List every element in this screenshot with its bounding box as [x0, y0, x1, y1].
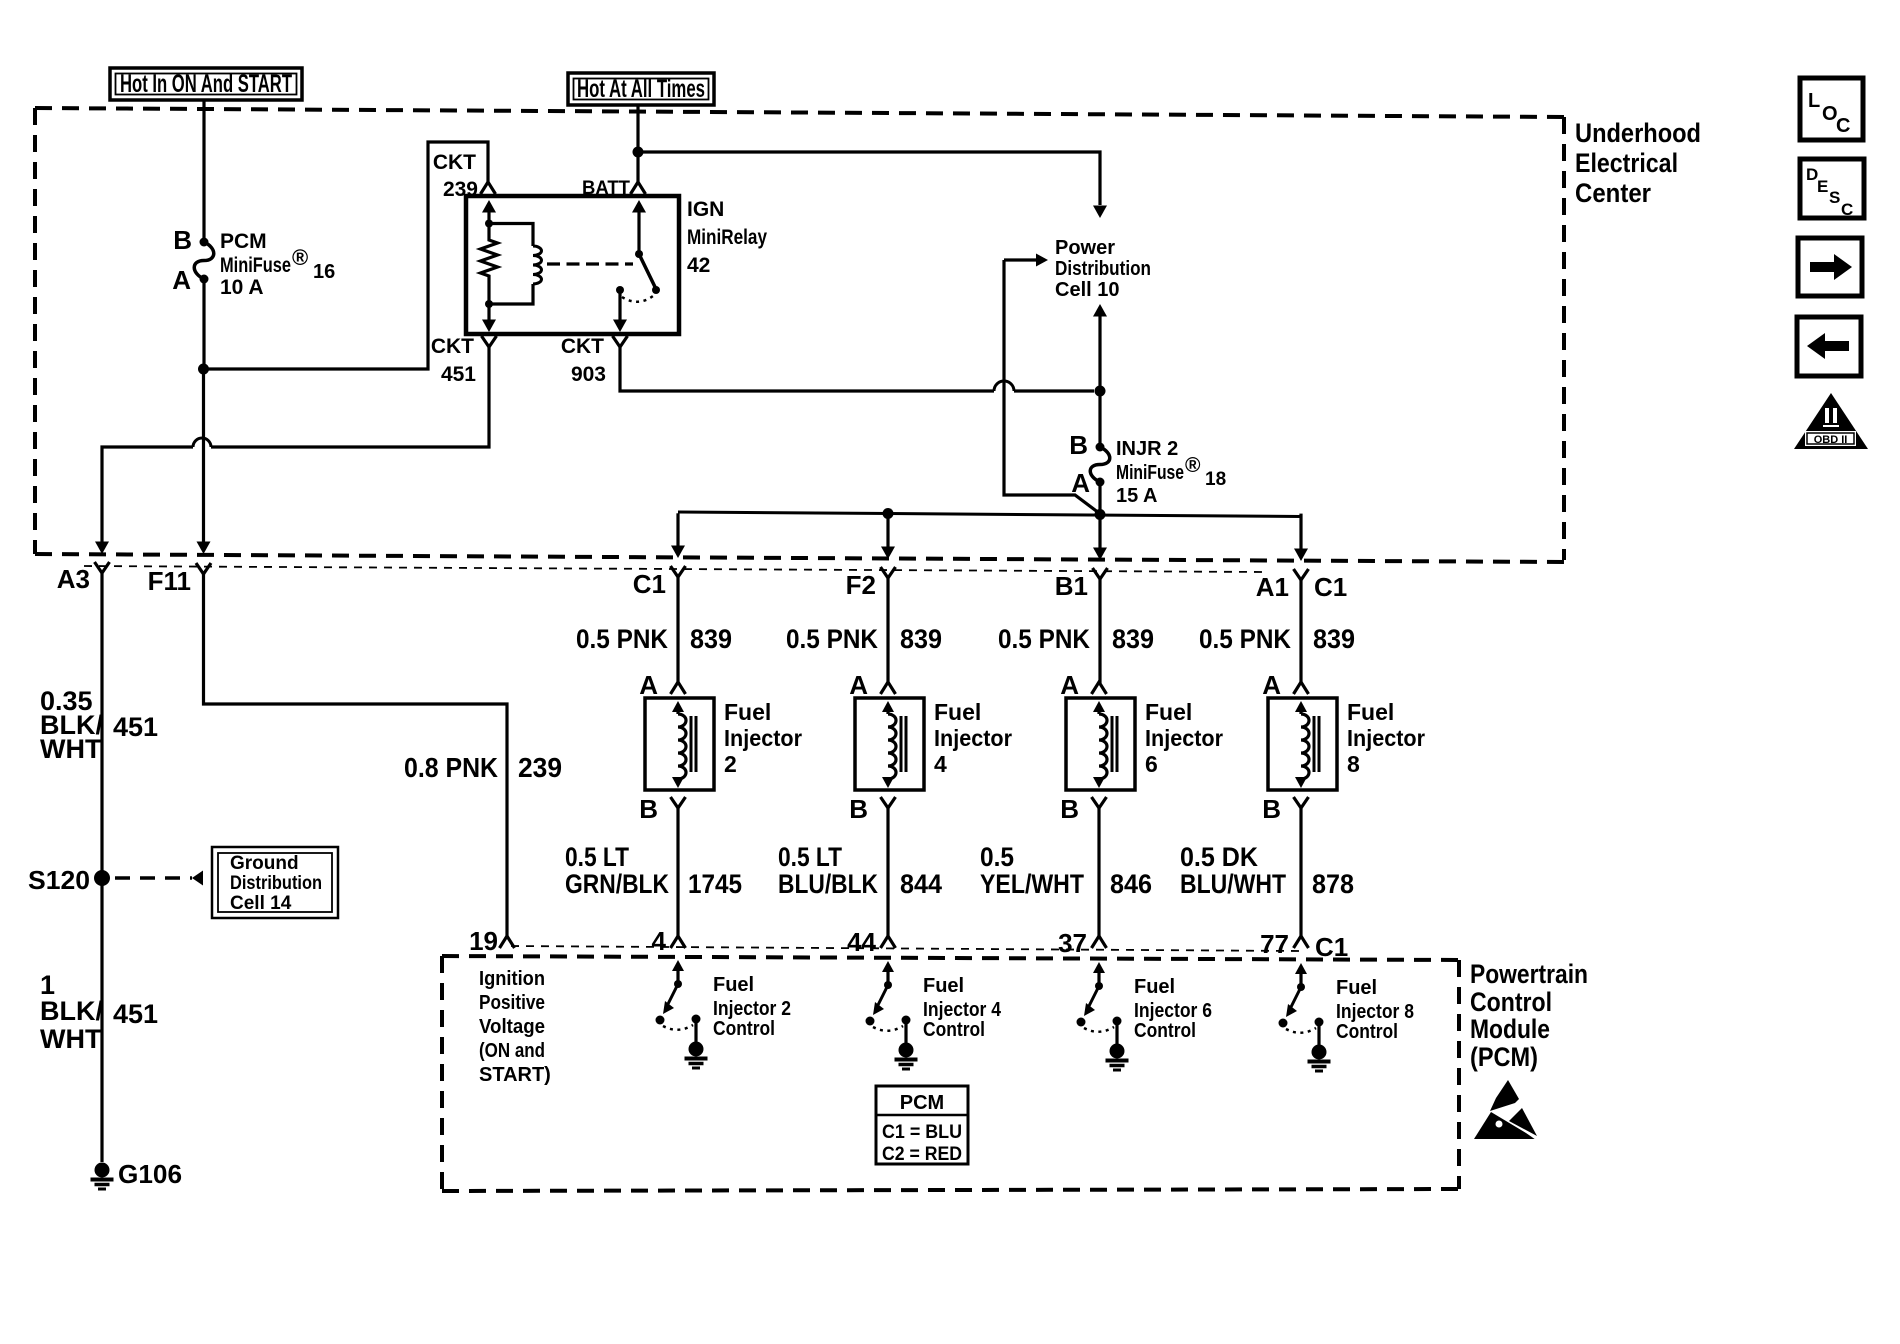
terminal A3 at UEC row — [95, 562, 110, 573]
svg-text:77: 77 — [1260, 929, 1289, 959]
terminal B injector 8 — [1294, 797, 1309, 808]
svg-text:MiniFuse: MiniFuse — [220, 254, 291, 277]
svg-text:Control: Control — [1470, 987, 1552, 1017]
ground symbol injector 8 driver — [1312, 1045, 1327, 1060]
icon back arrow — [1797, 317, 1861, 376]
svg-text:Injector 6: Injector 6 — [1134, 1000, 1212, 1022]
svg-text:WHT: WHT — [40, 734, 102, 764]
svg-text:A: A — [639, 670, 658, 700]
svg-text:B1: B1 — [1055, 571, 1088, 601]
svg-text:OBD II: OBD II — [1814, 434, 1848, 446]
terminal C1 at UEC row — [671, 566, 686, 577]
svg-text:IGN: IGN — [687, 198, 724, 221]
svg-text:YEL/WHT: YEL/WHT — [980, 869, 1084, 899]
svg-text:16: 16 — [313, 261, 335, 283]
relay dashed actuation link — [547, 262, 633, 265]
wire fuse junction down to F11 — [202, 369, 205, 548]
svg-text:Voltage: Voltage — [479, 1016, 545, 1038]
switch arm injector 2 — [668, 984, 678, 1004]
wire A3 to G106 — [100, 573, 103, 1162]
relay switch arm — [639, 254, 656, 289]
svg-text:Fuel: Fuel — [1347, 699, 1394, 725]
svg-text:19: 19 — [469, 926, 498, 956]
svg-text:S: S — [1829, 188, 1840, 207]
svg-text:®: ® — [1185, 454, 1201, 477]
svg-text:0.5 PNK: 0.5 PNK — [576, 624, 668, 654]
wire from Hot In ON And START to fuse — [202, 100, 205, 242]
svg-text:INJR 2: INJR 2 — [1116, 438, 1178, 460]
ground lead injector 4 driver — [904, 1020, 907, 1043]
injector 8 armature bars — [1313, 716, 1316, 772]
relay switch common leg with up arrow — [637, 210, 640, 254]
svg-text:B: B — [639, 794, 658, 824]
relay switch pivot dot — [635, 250, 643, 258]
svg-text:4: 4 — [652, 926, 667, 956]
terminal PCM pin 77 — [1294, 936, 1309, 948]
svg-text:B: B — [173, 225, 192, 255]
PCM connector legend box — [876, 1086, 968, 1164]
svg-text:C: C — [1841, 200, 1853, 219]
svg-text:37: 37 — [1058, 928, 1087, 958]
svg-text:44: 44 — [847, 927, 876, 957]
svg-text:839: 839 — [1112, 624, 1154, 654]
svg-text:CKT: CKT — [431, 335, 474, 358]
svg-text:Electrical: Electrical — [1575, 148, 1678, 178]
terminal A injector 8 — [1294, 682, 1309, 694]
arrow into UEC row at F11 — [197, 542, 211, 555]
fuel injector 2 box — [645, 698, 714, 790]
PCM driver switch injector 8 (up arrow) — [1299, 973, 1302, 987]
svg-text:Ignition: Ignition — [479, 968, 545, 990]
switch dotted travel arc injector 6 — [1084, 1027, 1114, 1032]
svg-text:903: 903 — [571, 363, 606, 386]
switch contact dots injector 8 — [1279, 1019, 1288, 1028]
svg-text:S120: S120 — [28, 865, 90, 895]
ground lead injector 6 driver — [1115, 1021, 1118, 1044]
relay junction dot bottom — [485, 300, 493, 308]
junction dot fuse output — [198, 364, 209, 375]
terminal pin 19 — [500, 936, 515, 948]
wire B1 to injector A — [1098, 579, 1101, 683]
injector 6 armature bars — [1111, 716, 1114, 772]
svg-text:C: C — [1836, 115, 1850, 137]
ground symbol injector 6 driver — [1110, 1044, 1125, 1059]
svg-text:4: 4 — [934, 751, 947, 777]
terminal CKT 451 below relay — [482, 336, 497, 347]
svg-text:15 A: 15 A — [1116, 485, 1158, 507]
terminal PCM pin 4 — [671, 936, 686, 948]
svg-text:(PCM): (PCM) — [1470, 1042, 1538, 1072]
switch arm injector 8 — [1291, 987, 1301, 1007]
terminal B injector 6 — [1092, 797, 1107, 808]
fuse INJR 2 MiniFuse 18 (15A) — [1096, 443, 1105, 452]
svg-text:MiniFuse: MiniFuse — [1116, 462, 1184, 484]
ground symbol injector 4 driver — [899, 1043, 914, 1058]
terminal A1 at UEC row — [1294, 569, 1309, 580]
svg-text:Injector: Injector — [724, 725, 802, 751]
Underhood Electrical Center dashed box — [35, 108, 1564, 117]
svg-text:846: 846 — [1110, 869, 1152, 899]
svg-text:L: L — [1808, 90, 1820, 112]
svg-text:BLU/BLK: BLU/BLK — [778, 869, 878, 899]
terminal CKT 239 into relay — [481, 182, 496, 194]
svg-text:0.5 DK: 0.5 DK — [1180, 842, 1258, 872]
svg-text:451: 451 — [113, 999, 158, 1029]
switch contact dots injector 2 — [656, 1016, 665, 1025]
relay switch dotted travel arc — [622, 296, 653, 302]
wire A1 to injector A — [1299, 580, 1302, 683]
splice S120 — [94, 870, 110, 886]
wire fuse A to junction — [202, 279, 205, 369]
svg-text:0.8 PNK: 0.8 PNK — [404, 752, 498, 783]
ground symbol injector 2 driver — [689, 1042, 704, 1057]
svg-text:0.5: 0.5 — [980, 842, 1014, 872]
wire F11 to PCM pin 19 (0.8 PNK 239) — [204, 574, 508, 936]
terminal A injector 4 — [881, 682, 896, 694]
svg-text:0.5 PNK: 0.5 PNK — [998, 624, 1090, 654]
svg-text:Injector: Injector — [934, 725, 1012, 751]
svg-text:A: A — [172, 265, 191, 295]
svg-text:0.5 LT: 0.5 LT — [778, 842, 842, 872]
PCM connector row thin dashed line — [511, 946, 1299, 951]
svg-text:Injector 8: Injector 8 — [1336, 1001, 1414, 1023]
wire injector 2 to PCM — [676, 808, 679, 936]
svg-text:B: B — [1262, 794, 1281, 824]
icon LOC — [1800, 78, 1863, 140]
terminal A injector 2 — [671, 682, 686, 694]
svg-text:BLU/WHT: BLU/WHT — [1180, 869, 1286, 899]
svg-text:(ON and: (ON and — [479, 1040, 545, 1062]
svg-text:B: B — [1060, 794, 1079, 824]
wire Hot At All Times to BATT — [636, 105, 639, 183]
tap wire down to injector bus — [1004, 260, 1099, 513]
svg-text:A: A — [1071, 468, 1090, 498]
svg-text:Cell 14: Cell 14 — [230, 893, 292, 914]
svg-text:Positive: Positive — [479, 992, 545, 1014]
svg-text:Hot At All Times: Hot At All Times — [577, 75, 705, 103]
svg-text:Powertrain: Powertrain — [1470, 959, 1588, 989]
bus drop wire to C1 — [676, 513, 679, 552]
relay junction dot top — [485, 220, 493, 228]
terminal CKT 903 below relay — [613, 336, 628, 347]
relay coil down arrow to box bottom — [487, 304, 490, 320]
svg-text:42: 42 — [687, 254, 710, 277]
bus drop wire to A1 — [1299, 514, 1302, 555]
svg-text:Hot In ON And START: Hot In ON And START — [120, 70, 292, 98]
terminal BATT — [631, 182, 646, 194]
svg-text:6: 6 — [1145, 751, 1158, 777]
switch contact dots injector 6 — [1077, 1018, 1086, 1027]
terminal B1 at UEC row — [1093, 568, 1108, 579]
switch arm injector 4 — [878, 985, 888, 1005]
svg-text:PCM: PCM — [220, 230, 267, 253]
terminal F2 at UEC row — [881, 567, 896, 578]
svg-text:Control: Control — [713, 1018, 775, 1040]
svg-text:GRN/BLK: GRN/BLK — [565, 869, 669, 899]
terminal B injector 4 — [881, 797, 896, 808]
svg-text:®: ® — [292, 245, 308, 270]
arrow tap into Power Distribution (left) — [1004, 258, 1036, 261]
switch arm injector 6 — [1089, 986, 1099, 1006]
svg-text:839: 839 — [690, 624, 732, 654]
svg-text:Injector 4: Injector 4 — [923, 999, 1002, 1021]
relay box IGN MiniRelay 42 — [466, 196, 679, 334]
svg-text:844: 844 — [900, 869, 942, 899]
svg-text:A: A — [1262, 670, 1281, 700]
svg-text:F11: F11 — [148, 566, 191, 596]
svg-text:Fuel: Fuel — [1134, 976, 1175, 998]
svg-text:Fuel: Fuel — [724, 699, 771, 725]
svg-text:Injector 2: Injector 2 — [713, 998, 791, 1020]
terminal B injector 2 — [671, 797, 686, 808]
svg-text:0.5 PNK: 0.5 PNK — [786, 624, 878, 654]
terminal F11 at UEC row — [196, 563, 211, 574]
svg-text:Injector: Injector — [1347, 725, 1425, 751]
svg-text:Fuel: Fuel — [1145, 699, 1192, 725]
bus junction dot F2 — [883, 508, 894, 519]
wire junction to INJR2 fuse B — [1098, 391, 1101, 447]
svg-text:CKT: CKT — [433, 151, 476, 174]
relay switch NO contact dot — [616, 286, 624, 294]
svg-text:E: E — [1817, 177, 1828, 196]
bus drop wire to B1 — [1098, 514, 1101, 555]
svg-text:1745: 1745 — [688, 869, 742, 899]
arrow into UEC row at A3 — [95, 542, 109, 555]
injector 8 coil with arrows — [1295, 701, 1307, 712]
svg-text:Distribution: Distribution — [1055, 258, 1151, 280]
fuel injector 4 box — [855, 698, 924, 790]
bus drop wire to F2 — [886, 513, 889, 553]
svg-text:Fuel: Fuel — [1336, 977, 1377, 999]
svg-text:A1: A1 — [1256, 572, 1289, 602]
svg-text:C1: C1 — [633, 569, 666, 599]
injector 6 coil with arrows — [1093, 701, 1105, 712]
svg-text:B: B — [849, 794, 868, 824]
fuel injector 8 box — [1268, 698, 1337, 790]
svg-text:2: 2 — [724, 751, 737, 777]
wire injector 8 to PCM — [1299, 808, 1302, 936]
svg-text:Power: Power — [1055, 237, 1115, 259]
wire CKT451 route to A3 — [211, 347, 489, 447]
relay resistor — [481, 232, 498, 296]
svg-text:0.5 PNK: 0.5 PNK — [1199, 624, 1291, 654]
wire C1 to injector A — [676, 577, 679, 683]
bus junction dot B1 — [1095, 509, 1106, 520]
svg-text:C1 = BLU: C1 = BLU — [882, 1122, 962, 1143]
wire F2 to injector A — [886, 578, 889, 683]
dashed reference line to Ground Distribution — [115, 876, 192, 880]
svg-text:Fuel: Fuel — [713, 974, 754, 996]
ground G106 — [95, 1163, 110, 1178]
wire junction to CKT239 corridor — [204, 142, 489, 369]
svg-text:A: A — [849, 670, 868, 700]
svg-text:Ground: Ground — [230, 853, 299, 874]
injector 4 coil with arrows — [882, 701, 894, 712]
svg-text:G106: G106 — [118, 1159, 182, 1189]
svg-text:CKT: CKT — [561, 335, 604, 358]
svg-text:Injector: Injector — [1145, 725, 1223, 751]
header label box: Hot In ON And START — [110, 68, 302, 100]
svg-text:Control: Control — [1134, 1020, 1196, 1042]
PCM driver switch injector 4 (up arrow) — [886, 971, 889, 985]
svg-text:WHT: WHT — [40, 1024, 102, 1054]
switch dotted travel arc injector 8 — [1286, 1028, 1316, 1033]
icon forward arrow — [1798, 238, 1862, 296]
svg-text:Control: Control — [1336, 1021, 1398, 1043]
svg-text:451: 451 — [441, 363, 476, 386]
svg-text:F2: F2 — [846, 570, 876, 600]
svg-text:B: B — [1069, 430, 1088, 460]
injector 4 armature bars — [900, 716, 903, 772]
icon OBD II triangle — [1794, 393, 1868, 449]
UEC connector row thin dashed line — [84, 566, 1265, 572]
fuel injector 6 box — [1066, 698, 1135, 790]
wire CKT903 to INJR2 fuse — [620, 347, 994, 391]
terminal PCM pin 37 — [1092, 936, 1107, 948]
svg-text:10 A: 10 A — [220, 276, 264, 299]
header label box: Hot At All Times — [568, 73, 714, 105]
svg-text:Center: Center — [1575, 178, 1651, 208]
terminal A injector 6 — [1092, 682, 1107, 694]
Ground Distribution Cell 14 box — [212, 847, 338, 918]
svg-text:A3: A3 — [57, 564, 90, 594]
wire injector 4 to PCM — [886, 808, 889, 936]
svg-text:451: 451 — [113, 712, 158, 742]
svg-text:MiniRelay: MiniRelay — [687, 226, 767, 249]
terminal PCM pin 44 — [881, 936, 896, 948]
junction dot CKT903/INJR2 — [1095, 386, 1106, 397]
wire BATT junction to Power Distribution Cell 10 (down arrow) — [638, 152, 1100, 205]
svg-text:A: A — [1060, 670, 1079, 700]
wire fuse A to bus junction — [1098, 482, 1101, 513]
ground lead injector 2 driver — [694, 1019, 697, 1042]
svg-text:839: 839 — [1313, 624, 1355, 654]
icon DESC — [1800, 159, 1864, 218]
svg-text:C1: C1 — [1314, 572, 1347, 602]
relay switch output to box bottom — [618, 290, 621, 320]
junction dot on BATT wire — [633, 147, 644, 158]
PCM driver switch injector 2 (up arrow) — [676, 970, 679, 984]
svg-text:Cell 10: Cell 10 — [1055, 279, 1119, 301]
arrow up toward Power Distribution Cell 10 — [1098, 315, 1101, 391]
svg-text:C2 = RED: C2 = RED — [882, 1144, 962, 1165]
svg-text:Control: Control — [923, 1019, 985, 1041]
svg-text:START): START) — [479, 1064, 551, 1086]
svg-text:Module: Module — [1470, 1014, 1550, 1044]
svg-text:Fuel: Fuel — [923, 975, 964, 997]
injector 2 armature bars — [690, 716, 693, 772]
fuse PCM MiniFuse 16 (10A) — [200, 238, 209, 247]
svg-text:Fuel: Fuel — [934, 699, 981, 725]
ground lead injector 8 driver — [1317, 1022, 1320, 1045]
switch dotted travel arc injector 2 — [663, 1025, 693, 1030]
switch dotted travel arc injector 4 — [873, 1026, 903, 1031]
svg-text:839: 839 — [900, 624, 942, 654]
PCM driver switch injector 6 (up arrow) — [1097, 972, 1100, 986]
relay coil branch (inductor) — [489, 224, 533, 247]
svg-text:239: 239 — [518, 752, 562, 783]
svg-text:18: 18 — [1205, 469, 1226, 490]
svg-text:Underhood: Underhood — [1575, 118, 1701, 148]
svg-text:8: 8 — [1347, 751, 1360, 777]
PCM dashed box — [442, 956, 1461, 960]
svg-text:BLK/: BLK/ — [40, 996, 103, 1026]
hop over power-dist tap wire — [994, 381, 1014, 391]
svg-text:878: 878 — [1312, 869, 1354, 899]
ESD sensitivity symbol — [1490, 1080, 1519, 1111]
wire injector 6 to PCM — [1097, 808, 1100, 936]
switch contact dots injector 4 — [866, 1017, 875, 1026]
relay coil-side vertical with up arrow — [487, 210, 490, 232]
hop over fuse wire — [193, 438, 211, 447]
svg-text:PCM: PCM — [900, 1092, 944, 1114]
injector supply bus — [678, 512, 1301, 517]
svg-text:Distribution: Distribution — [230, 873, 322, 894]
svg-text:0.5 LT: 0.5 LT — [565, 842, 629, 872]
injector 2 coil with arrows — [672, 701, 684, 712]
